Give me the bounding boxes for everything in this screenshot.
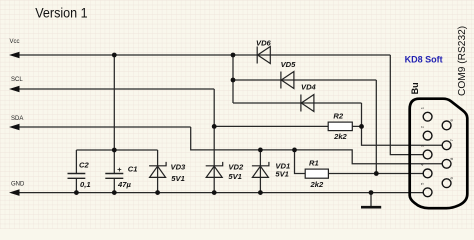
SDA arrow bbox=[9, 124, 20, 131]
pin 3 bbox=[423, 150, 432, 159]
capacitor C1 bbox=[105, 165, 137, 190]
svg-text:VD5: VD5 bbox=[281, 60, 297, 69]
zener diode VD2 bbox=[206, 162, 244, 181]
svg-text:VD3: VD3 bbox=[171, 162, 187, 171]
junction SDA jog / VD1 bbox=[258, 148, 263, 153]
svg-text:5V1: 5V1 bbox=[228, 172, 242, 181]
junction GND / C1 bbox=[112, 190, 117, 195]
svg-text:C1: C1 bbox=[128, 165, 138, 174]
wire R1 to pin 4 bbox=[328, 173, 423, 175]
svg-text:R2: R2 bbox=[333, 111, 343, 120]
wire R1 feed bbox=[295, 150, 306, 174]
junction diode branch / VD5 row bbox=[231, 78, 236, 83]
wire C1 lower stem bbox=[113, 179, 115, 193]
junction GND / C2 bbox=[74, 190, 79, 195]
wire VD1 stem bbox=[259, 150, 261, 193]
junction GND / VD1 bbox=[258, 190, 263, 195]
wire Vcc drop to capacitor node bbox=[113, 55, 115, 173]
wire VD5 drop to pin4 node bbox=[375, 80, 377, 174]
wire VD5 row bbox=[233, 79, 376, 81]
wire Vcc branch down to diode rows bbox=[232, 55, 234, 103]
svg-text:47µ: 47µ bbox=[117, 180, 131, 189]
zener diode VD3 bbox=[149, 162, 186, 183]
pin 8 bbox=[442, 159, 451, 168]
Vcc arrow bbox=[9, 52, 20, 59]
junction Vcc rail / C1 branch bbox=[112, 53, 117, 58]
pin 7 bbox=[442, 141, 451, 150]
diode VD5 bbox=[281, 60, 297, 89]
GND arrow bbox=[9, 189, 20, 196]
capacitor C2 bbox=[68, 161, 91, 190]
junction GND / VD3 bbox=[155, 190, 160, 195]
pin 9 bbox=[442, 179, 451, 188]
wire SDA jog down bbox=[191, 127, 443, 164]
junction Vcc rail / diode branch bbox=[231, 53, 236, 58]
zener diode VD1 bbox=[252, 162, 290, 179]
junction GND / ground symbol bbox=[369, 190, 374, 195]
SCL arrow bbox=[9, 86, 20, 93]
svg-text:Vcc: Vcc bbox=[10, 39, 20, 45]
wire VD6 drop to pin 3 bbox=[390, 55, 423, 155]
svg-text:Bu: Bu bbox=[410, 82, 420, 94]
Vcc rail wire bbox=[15, 54, 390, 56]
junction SDA jog / R1 feed bbox=[292, 148, 297, 153]
svg-text:KD8 Soft: KD8 Soft bbox=[405, 54, 443, 64]
pin 6 bbox=[442, 121, 451, 130]
svg-text:SCL: SCL bbox=[11, 77, 23, 83]
wire VD4 row bbox=[233, 102, 362, 104]
svg-text:Version 1: Version 1 bbox=[35, 5, 88, 21]
wire SCL drop to VD2 bbox=[213, 89, 215, 193]
svg-text:VD4: VD4 bbox=[301, 83, 317, 92]
wire ground stub bbox=[370, 193, 372, 207]
svg-text:5V1: 5V1 bbox=[275, 170, 289, 179]
svg-text:5V1: 5V1 bbox=[171, 174, 185, 183]
pin 5 bbox=[423, 188, 432, 197]
svg-text:VD6: VD6 bbox=[256, 39, 272, 48]
GND rail wire bbox=[15, 192, 423, 194]
svg-text:GND: GND bbox=[11, 182, 25, 188]
wire VD4 drop through R2 node to pin 7 bbox=[362, 103, 443, 145]
wire VD3 stem bbox=[157, 150, 159, 193]
svg-text:SDA: SDA bbox=[11, 116, 23, 122]
svg-text:C2: C2 bbox=[79, 161, 89, 170]
resistor R2 bbox=[328, 111, 352, 141]
pin 1 bbox=[423, 112, 432, 121]
svg-text:2k2: 2k2 bbox=[310, 180, 324, 189]
pin 2 bbox=[423, 131, 432, 140]
resistor R1 bbox=[305, 158, 328, 189]
ground bbox=[361, 206, 381, 209]
diode VD6 bbox=[256, 39, 272, 64]
svg-text:+: + bbox=[117, 165, 122, 174]
svg-text:2k2: 2k2 bbox=[333, 132, 347, 141]
SCL rail wire bbox=[15, 88, 214, 90]
svg-text:VD2: VD2 bbox=[228, 162, 244, 171]
connector COM9 DB9 Bu bbox=[410, 26, 468, 208]
svg-text:COM9 (RS232): COM9 (RS232) bbox=[457, 26, 468, 96]
wire capacitor top bus C2-C1-VD3 bbox=[76, 149, 157, 151]
SDA rail wire bbox=[15, 126, 191, 128]
junction Vcc drop / capacitor bus bbox=[112, 148, 117, 153]
diode VD4 bbox=[301, 83, 317, 112]
junction GND / VD2 bbox=[212, 190, 217, 195]
wire C2 stem bbox=[75, 150, 77, 193]
svg-text:0,1: 0,1 bbox=[80, 180, 91, 189]
junction R2 / VD4 / pin 7 bbox=[359, 124, 364, 129]
pin 4 bbox=[423, 169, 432, 178]
svg-text:R1: R1 bbox=[309, 158, 319, 167]
wire R2 row bbox=[214, 125, 361, 127]
junction SCL / R2 row bbox=[212, 124, 217, 129]
junction VD5 / R1 / pin 4 bbox=[374, 171, 379, 176]
